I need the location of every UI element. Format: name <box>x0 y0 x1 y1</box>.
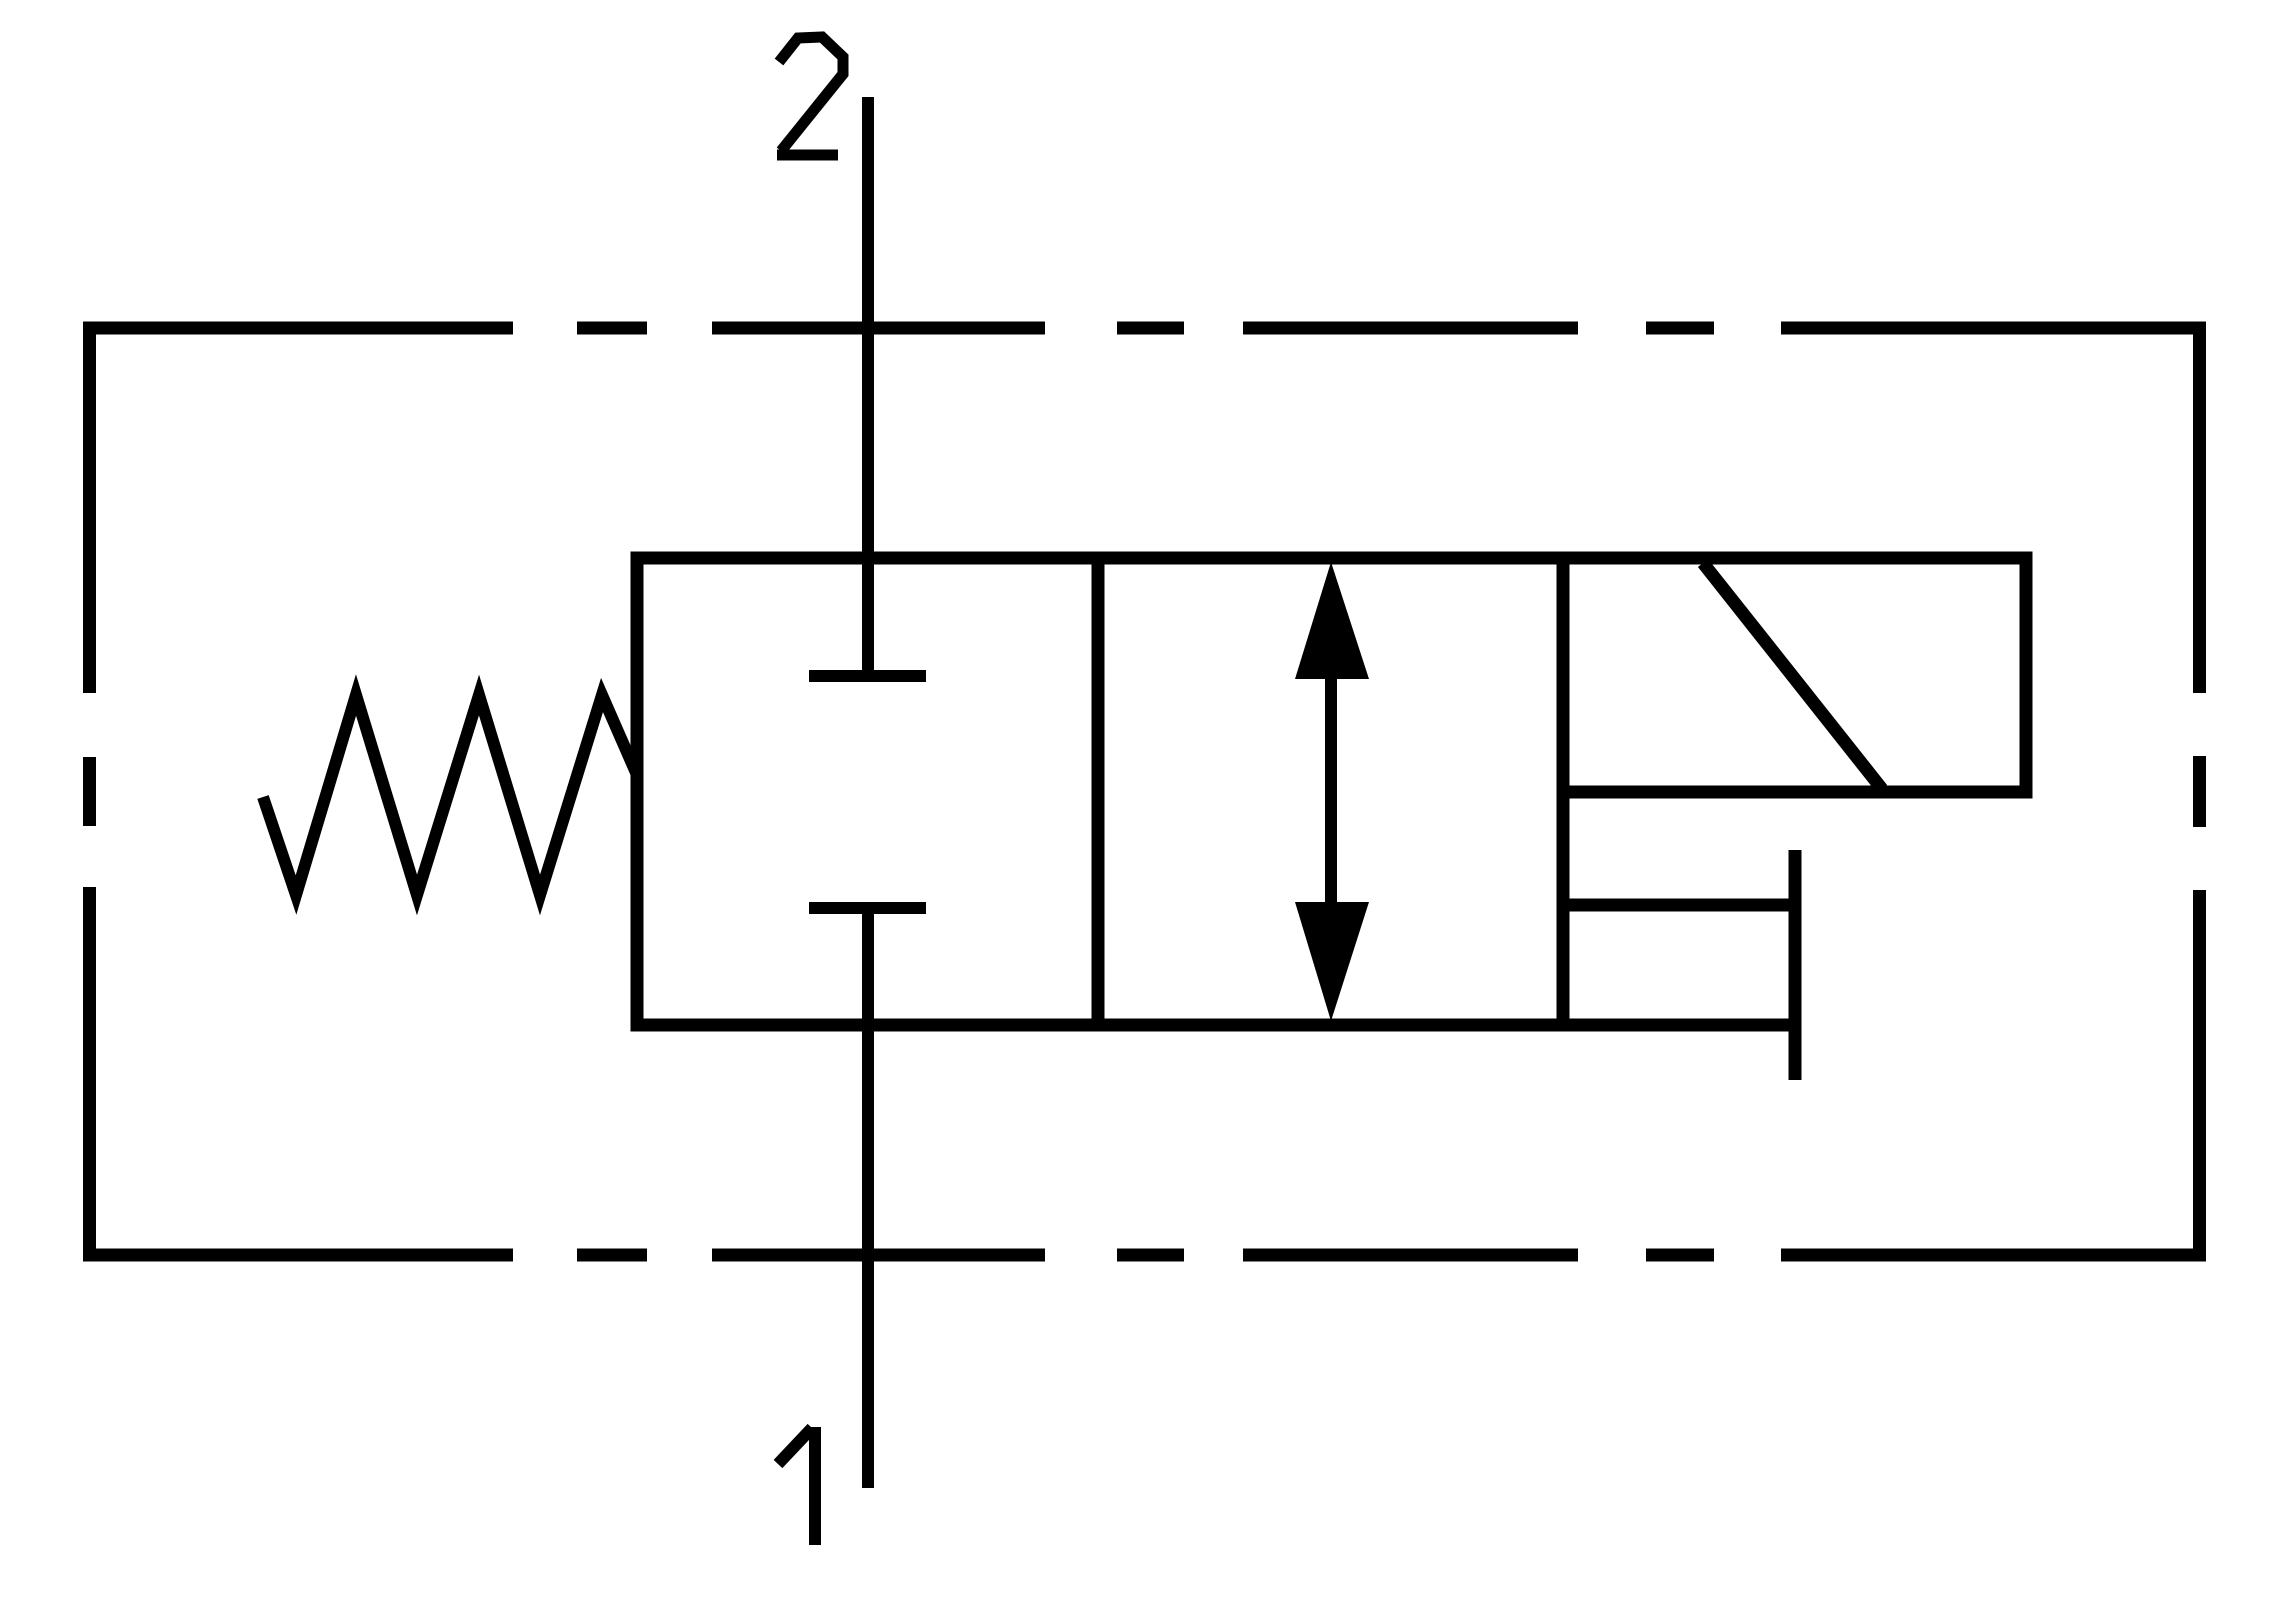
port 1 blocked seat crossbar <box>809 902 926 914</box>
pilot line lower <box>1563 1019 1789 1032</box>
flow path arrow head up <box>1295 562 1369 679</box>
port 2 line <box>862 97 874 676</box>
valve body outline (two position boxes) <box>637 558 1563 1025</box>
flow path arrow head down <box>1295 902 1369 1021</box>
pilot terminator bar <box>1789 850 1802 1080</box>
port label 1 <box>778 1427 815 1545</box>
cartridge envelope top dash-dot border <box>83 322 2206 335</box>
port label 2 <box>777 37 843 155</box>
cartridge envelope bottom dash-dot border <box>83 1249 2206 1262</box>
pilot line upper <box>1563 899 1789 912</box>
port 2 blocked seat crossbar <box>809 670 926 682</box>
flow path arrow shaft <box>1325 670 1337 910</box>
spring <box>263 695 637 895</box>
valve position divider <box>1092 558 1105 1025</box>
cartridge envelope left dash-dot border <box>83 322 96 1262</box>
port 1 line <box>862 908 874 1488</box>
solenoid diagonal <box>1703 563 1882 789</box>
cartridge envelope right dash-dot border <box>2193 322 2206 1262</box>
solenoid U1 box <box>1563 558 2026 792</box>
